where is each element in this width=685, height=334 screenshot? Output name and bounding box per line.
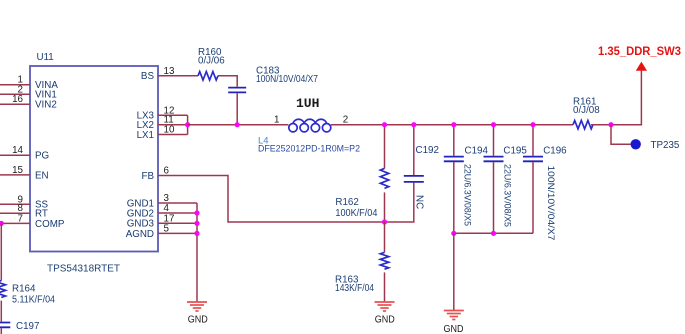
svg-text:DFE252012PD-1R0M=P2: DFE252012PD-1R0M=P2 xyxy=(258,144,360,155)
resistor R160 xyxy=(198,47,225,80)
node R162 top junction xyxy=(382,122,387,127)
svg-text:C196: C196 xyxy=(543,145,567,156)
capacitor C196 xyxy=(523,125,567,241)
node C192 junction xyxy=(411,122,416,127)
svg-text:13: 13 xyxy=(164,66,175,77)
IC U11 body xyxy=(30,52,158,274)
svg-text:AGND: AGND xyxy=(126,229,154,240)
ground R163 xyxy=(375,302,395,325)
node C195 bottom junction xyxy=(491,231,496,236)
pin 4 GND2 wire xyxy=(127,203,197,219)
pin 2 VIN1 wire xyxy=(0,84,57,100)
node TP junction xyxy=(608,122,613,127)
resistor R164 xyxy=(0,281,55,306)
wire GND pins bus xyxy=(196,203,198,302)
net 1.35_DDR_SW3 xyxy=(598,44,681,71)
node GND3 junction xyxy=(194,221,199,226)
svg-text:PG: PG xyxy=(35,151,49,162)
wire to ground xyxy=(453,233,455,310)
pin 14 PG wire xyxy=(0,145,49,161)
svg-text:15: 15 xyxy=(12,165,23,176)
svg-text:GND: GND xyxy=(375,314,395,325)
svg-text:TPS54318RTET: TPS54318RTET xyxy=(47,263,120,274)
svg-text:EN: EN xyxy=(35,170,49,181)
svg-text:TP235: TP235 xyxy=(651,140,680,151)
capacitor C195 xyxy=(484,125,528,234)
wire LX rail to inductor xyxy=(188,124,289,126)
svg-text:BS: BS xyxy=(141,71,155,82)
node COMP junction xyxy=(0,221,4,226)
node C196 top junction xyxy=(530,122,535,127)
svg-text:GND: GND xyxy=(444,324,464,334)
pin 3 GND1 wire xyxy=(127,193,197,209)
svg-text:U11: U11 xyxy=(37,52,54,63)
svg-text:1.35_DDR_SW3: 1.35_DDR_SW3 xyxy=(598,44,681,58)
test point TP235 xyxy=(611,125,680,151)
capacitor C183 xyxy=(228,65,318,92)
svg-text:5.11K/F/04: 5.11K/F/04 xyxy=(12,294,55,305)
svg-text:100K/F/04: 100K/F/04 xyxy=(335,208,377,219)
svg-text:NC: NC xyxy=(414,195,425,209)
svg-text:22U/6.3V/08/X5: 22U/6.3V/08/X5 xyxy=(503,164,513,227)
ground capacitors xyxy=(444,311,464,334)
pin 10 LX1 wire xyxy=(137,125,188,141)
wire R161 to net arrow xyxy=(591,71,641,125)
svg-text:0/J/08: 0/J/08 xyxy=(573,105,600,116)
svg-text:2: 2 xyxy=(343,114,348,125)
pin 8 RT wire xyxy=(0,203,48,219)
wire R164 to C197 xyxy=(0,301,2,322)
pin 15 EN wire xyxy=(0,165,49,181)
svg-text:C195: C195 xyxy=(503,145,527,156)
svg-text:14: 14 xyxy=(12,145,23,156)
pin 9 SS wire xyxy=(0,194,49,210)
svg-text:GND: GND xyxy=(188,315,208,326)
pin 12 LX3 wire xyxy=(137,105,188,121)
pin 5 AGND wire xyxy=(126,223,197,239)
svg-text:10: 10 xyxy=(164,125,175,136)
svg-text:1: 1 xyxy=(274,114,279,125)
pin 13 BS wire xyxy=(141,66,237,87)
pin 1 VINA wire xyxy=(0,75,58,91)
node C194 top junction xyxy=(451,122,456,127)
svg-text:1UH: 1UH xyxy=(296,96,319,111)
node C195 top junction xyxy=(491,122,496,127)
svg-text:R164: R164 xyxy=(12,283,36,294)
svg-text:100N/10V/04/X7: 100N/10V/04/X7 xyxy=(256,74,318,85)
resistor R163 xyxy=(335,222,389,302)
capacitor C194 xyxy=(444,125,489,234)
capacitor C197 xyxy=(0,321,39,332)
wire C197 lower lead xyxy=(0,328,2,334)
ground IC xyxy=(187,302,208,326)
svg-text:0/J/06: 0/J/06 xyxy=(198,55,225,66)
svg-text:FB: FB xyxy=(141,171,154,182)
node C183 junction xyxy=(235,122,240,127)
node FB junction xyxy=(382,219,387,224)
node C194 bottom junction xyxy=(451,231,456,236)
node AGND junction xyxy=(194,231,199,236)
svg-text:6: 6 xyxy=(164,166,170,177)
svg-text:R162: R162 xyxy=(335,197,358,208)
wire LX bracket xyxy=(187,115,189,134)
svg-text:LX1: LX1 xyxy=(137,130,154,141)
pin 6 FB wire xyxy=(141,166,413,223)
pin 16 VIN2 wire xyxy=(0,94,57,110)
inductor L4 xyxy=(258,96,360,155)
svg-text:COMP: COMP xyxy=(35,219,65,230)
resistor R162 xyxy=(335,125,388,222)
svg-text:143K/F/04: 143K/F/04 xyxy=(335,283,374,294)
wire main rail after inductor xyxy=(331,124,573,126)
node LX junction xyxy=(185,122,190,127)
svg-text:C194: C194 xyxy=(465,145,489,156)
svg-text:VIN2: VIN2 xyxy=(35,100,57,111)
resistor R161 xyxy=(573,96,600,129)
wire capacitor bottom rail xyxy=(454,232,533,234)
wire COMP branch down xyxy=(0,223,2,280)
svg-text:C197: C197 xyxy=(16,321,39,332)
svg-text:22U/6.3V/08/X5: 22U/6.3V/08/X5 xyxy=(463,164,473,226)
svg-text:100N/10V/04/X7: 100N/10V/04/X7 xyxy=(545,166,556,241)
svg-text:C192: C192 xyxy=(416,145,439,156)
svg-text:7: 7 xyxy=(18,213,23,224)
pin 11 LX2 wire xyxy=(137,115,188,131)
pin 7 COMP wire xyxy=(0,213,65,229)
pin 17 GND3 wire xyxy=(127,213,197,229)
svg-text:5: 5 xyxy=(164,223,170,234)
capacitor C192 xyxy=(404,125,439,209)
node GND2 junction xyxy=(194,210,199,215)
wire C183 lower lead xyxy=(236,93,238,125)
svg-text:16: 16 xyxy=(12,94,23,105)
